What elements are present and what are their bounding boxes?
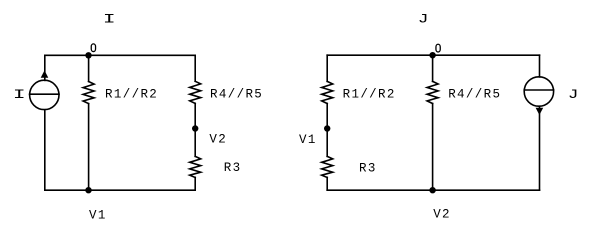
svg-text:R1//R2: R1//R2 bbox=[343, 88, 396, 102]
node V2 junction dot (right circuit) bbox=[429, 187, 435, 193]
label node 0 (right circuit) bbox=[436, 44, 440, 52]
svg-text:I: I bbox=[103, 13, 116, 27]
wire: right branch top segment left circuit bbox=[194, 55, 196, 81]
wire: left branch top segment right circuit bbox=[326, 55, 328, 81]
svg-text:V1: V1 bbox=[299, 133, 317, 147]
resistor R3 (left circuit) bbox=[190, 156, 201, 177]
label node 0 (left circuit) bbox=[91, 44, 95, 52]
svg-text:R3: R3 bbox=[359, 162, 377, 176]
wire: left branch top segment to current source I bbox=[44, 55, 46, 80]
resistor R1//R2 (right circuit) bbox=[322, 81, 333, 103]
svg-text:R3: R3 bbox=[224, 161, 242, 175]
wire: top rail left circuit (node 0) bbox=[45, 54, 195, 56]
node V1 junction dot (left circuit) bbox=[85, 187, 91, 193]
wire: left branch bottom segment from current source I bbox=[44, 110, 46, 190]
wire: middle branch top segment left circuit bbox=[88, 55, 90, 81]
wire: bottom rail right circuit (node V2) bbox=[327, 189, 539, 191]
current source I (left circuit) bbox=[30, 70, 59, 109]
svg-text:R4//R5: R4//R5 bbox=[448, 88, 501, 102]
svg-text:J: J bbox=[568, 88, 579, 102]
wire: right branch bottom segment left circuit bbox=[194, 177, 196, 190]
wire: left branch middle segment (node V1, right circuit) bbox=[326, 104, 328, 157]
svg-text:J: J bbox=[418, 13, 429, 27]
resistor R3 (right circuit) bbox=[322, 156, 333, 177]
resistor R4//R5 (left circuit) bbox=[190, 81, 201, 103]
current source J (right circuit) bbox=[524, 77, 553, 115]
wire: right branch middle segment (node V2) bbox=[194, 103, 196, 156]
wire: middle branch bottom segment left circuit bbox=[88, 104, 90, 191]
node V2 junction dot (left circuit) bbox=[192, 125, 198, 131]
wire: middle branch top segment right circuit bbox=[432, 55, 434, 81]
wire: middle branch bottom segment right circuit bbox=[432, 104, 434, 191]
node 0 junction dot (right circuit) bbox=[429, 52, 435, 58]
node V1 junction dot (right circuit) bbox=[324, 125, 330, 131]
node 0 junction dot (left circuit) bbox=[85, 52, 91, 58]
wire: left branch bottom segment right circuit bbox=[326, 177, 328, 190]
wire: bottom rail left circuit (node V1) bbox=[45, 189, 195, 191]
svg-text:V2: V2 bbox=[433, 208, 451, 222]
svg-text:V1: V1 bbox=[89, 208, 107, 222]
resistor R4//R5 (right circuit) bbox=[427, 81, 438, 103]
svg-text:R1//R2: R1//R2 bbox=[105, 88, 158, 102]
svg-text:R4//R5: R4//R5 bbox=[210, 88, 263, 102]
wire: right branch bottom segment from current source J bbox=[539, 106, 541, 190]
svg-text:I: I bbox=[13, 88, 26, 102]
resistor R1//R2 (left circuit) bbox=[83, 82, 94, 104]
svg-text:V2: V2 bbox=[209, 133, 227, 147]
wire: top rail right circuit (node 0) bbox=[327, 54, 539, 56]
wire: right branch top segment to current source J bbox=[539, 55, 541, 77]
